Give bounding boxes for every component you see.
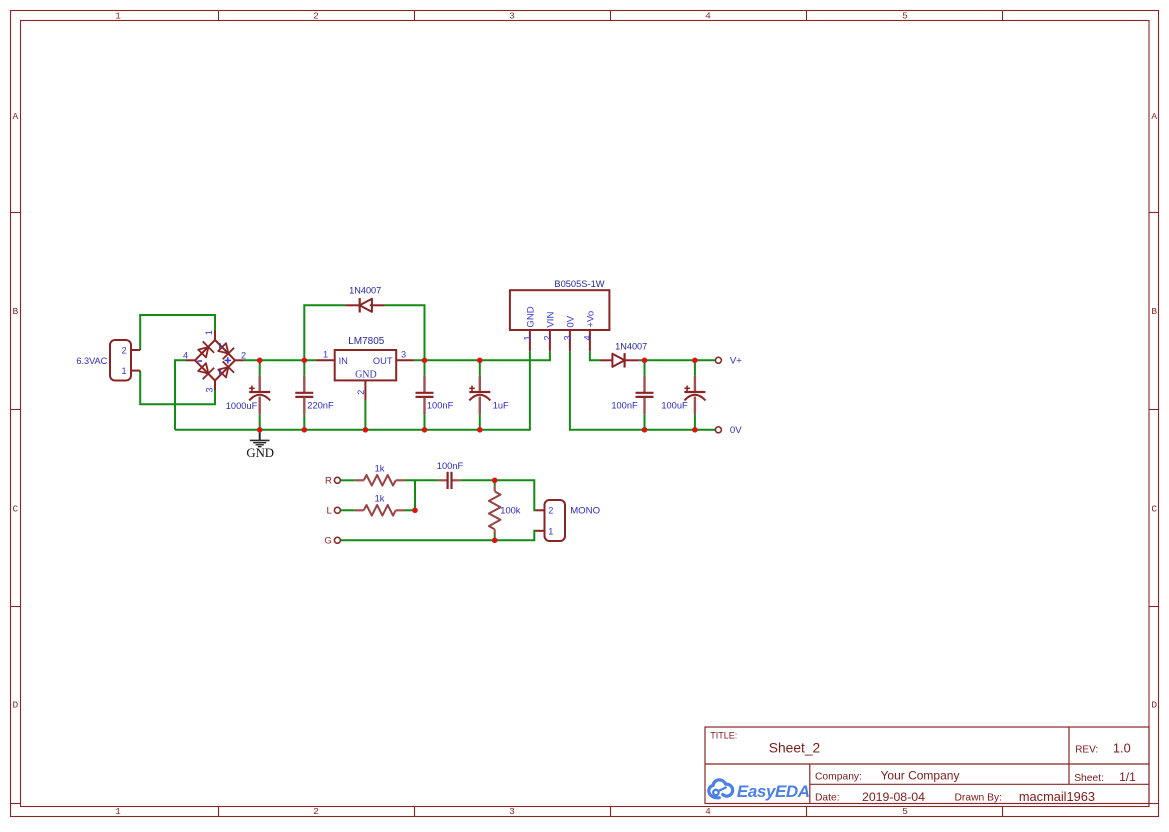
svg-text:~: ~	[215, 342, 227, 349]
junction	[692, 427, 698, 433]
svg-text:Your Company: Your Company	[881, 769, 960, 783]
capacitor C1 1000uF	[249, 360, 270, 430]
svg-text:1/1: 1/1	[1119, 770, 1136, 784]
bridge rectifier D1	[186, 331, 244, 391]
capacitor C4 1uF	[469, 360, 490, 430]
svg-text:Date:: Date:	[815, 793, 840, 804]
junction	[257, 358, 263, 364]
connector P1 6.3VAC	[110, 340, 140, 381]
svg-text:220nF: 220nF	[307, 401, 334, 411]
wire	[590, 351, 600, 360]
svg-text:2: 2	[313, 11, 319, 22]
svg-text:6.3VAC: 6.3VAC	[76, 356, 107, 366]
svg-text:0V: 0V	[730, 425, 742, 436]
capacitor C7 100nF	[438, 472, 460, 489]
svg-text:OUT: OUT	[373, 356, 393, 366]
svg-text:2: 2	[241, 351, 246, 361]
wire	[340, 531, 535, 541]
svg-text:3: 3	[401, 349, 406, 359]
junction	[492, 478, 498, 484]
svg-text:3: 3	[204, 387, 214, 392]
svg-text:+Vo: +Vo	[585, 311, 596, 328]
wire	[384, 305, 424, 360]
title block	[705, 727, 1149, 804]
svg-text:4: 4	[583, 335, 593, 340]
svg-text:Sheet:: Sheet:	[1074, 773, 1104, 784]
svg-text:B: B	[1151, 306, 1157, 317]
svg-text:GND: GND	[355, 370, 377, 381]
connector P2 MONO	[536, 500, 566, 541]
wire	[364, 400, 366, 430]
ground	[250, 431, 270, 447]
svg-text:1: 1	[323, 349, 328, 359]
diode D2 1N4007	[345, 298, 384, 312]
svg-text:4: 4	[705, 11, 711, 22]
module U2 B0505S-1W	[510, 290, 610, 351]
svg-text:1: 1	[204, 330, 214, 335]
wire	[304, 305, 345, 360]
terminal V+	[715, 357, 721, 363]
wire	[175, 351, 530, 430]
capacitor C2 220nF	[295, 360, 313, 430]
junction	[477, 358, 483, 364]
svg-text:2: 2	[313, 806, 319, 817]
svg-text:Sheet_2: Sheet_2	[769, 740, 820, 755]
svg-text:4: 4	[705, 806, 711, 817]
svg-text:D: D	[1151, 700, 1157, 711]
svg-text:5: 5	[902, 806, 908, 817]
svg-text:L: L	[327, 506, 333, 517]
svg-text:C: C	[1151, 504, 1157, 515]
wire	[570, 351, 715, 430]
svg-text:1: 1	[115, 806, 121, 817]
junction	[302, 427, 308, 433]
svg-text:Drawn By:: Drawn By:	[955, 793, 1003, 804]
capacitor C3 100nF	[416, 360, 434, 430]
svg-text:macmail1963: macmail1963	[1019, 789, 1095, 804]
junction	[302, 358, 308, 364]
svg-text:4: 4	[183, 351, 188, 361]
svg-text:B0505S-1W: B0505S-1W	[554, 279, 604, 289]
junction	[412, 508, 418, 514]
svg-text:GND: GND	[246, 446, 274, 460]
svg-text:G: G	[324, 536, 331, 547]
wire	[340, 479, 354, 481]
svg-text:1uF: 1uF	[493, 400, 509, 410]
terminal G	[334, 537, 340, 543]
svg-text:100nF: 100nF	[427, 400, 454, 410]
wire	[414, 480, 416, 510]
svg-text:D: D	[12, 700, 18, 711]
svg-text:V+: V+	[730, 356, 742, 367]
svg-text:1000uF: 1000uF	[226, 401, 258, 411]
svg-text:REV:: REV:	[1075, 745, 1098, 756]
svg-text:3: 3	[509, 806, 515, 817]
svg-text:1: 1	[548, 526, 553, 536]
svg-text:3: 3	[509, 11, 515, 22]
svg-text:3: 3	[563, 335, 573, 340]
junction	[642, 427, 648, 433]
junction	[422, 427, 428, 433]
junction	[477, 427, 483, 433]
svg-text:~: ~	[215, 368, 227, 375]
junction	[492, 538, 498, 544]
svg-text:2: 2	[122, 346, 127, 356]
svg-text:2: 2	[543, 335, 553, 340]
wire	[140, 315, 215, 350]
svg-text:IN: IN	[339, 356, 348, 366]
wire	[405, 509, 416, 511]
svg-text:100k: 100k	[500, 506, 521, 516]
junction	[642, 358, 648, 364]
terminal R	[334, 477, 340, 483]
capacitor C6 100uF	[684, 360, 705, 430]
svg-text:1: 1	[122, 366, 127, 376]
wire	[414, 351, 550, 360]
svg-text:Company:: Company:	[815, 771, 862, 782]
svg-text:1.0: 1.0	[1113, 741, 1131, 756]
wire	[494, 480, 496, 486]
svg-text:100nF: 100nF	[611, 400, 638, 410]
svg-text:LM7805: LM7805	[348, 336, 385, 347]
svg-text:1k: 1k	[375, 494, 385, 504]
svg-text:5: 5	[902, 11, 908, 22]
D1 minus mark	[198, 360, 203, 362]
svg-text:C: C	[12, 504, 18, 515]
resistor R2 1k	[355, 505, 405, 516]
svg-text:1N4007: 1N4007	[615, 342, 647, 352]
svg-text:A: A	[1151, 111, 1157, 122]
wire	[340, 509, 354, 511]
svg-text:1: 1	[523, 335, 533, 340]
junction	[257, 427, 263, 433]
wire	[639, 359, 715, 361]
svg-text:EasyEDA: EasyEDA	[737, 782, 810, 801]
diode D3 1N4007	[600, 353, 639, 367]
junction	[422, 358, 428, 364]
wire	[405, 479, 439, 481]
junction	[692, 358, 698, 364]
wire	[244, 359, 316, 361]
wire	[461, 480, 536, 510]
svg-text:1N4007: 1N4007	[349, 285, 381, 295]
svg-text:VIN: VIN	[545, 312, 556, 328]
svg-text:2019-08-04: 2019-08-04	[862, 790, 925, 804]
svg-text:2: 2	[548, 506, 553, 516]
svg-text:MONO: MONO	[570, 506, 600, 517]
terminal 0V	[715, 427, 721, 433]
capacitor C5 100nF	[636, 360, 654, 430]
svg-text:2: 2	[356, 390, 366, 395]
svg-text:0V: 0V	[565, 315, 576, 327]
D1 plus mark	[225, 357, 231, 363]
svg-text:100uF: 100uF	[661, 400, 688, 410]
svg-text:B: B	[12, 306, 18, 317]
junction	[363, 427, 369, 433]
logo	[709, 780, 733, 798]
resistor R1 1k	[355, 475, 405, 486]
wire	[175, 360, 186, 430]
svg-text:GND: GND	[525, 306, 536, 327]
regulator U1 LM7805	[316, 350, 415, 400]
svg-text:1: 1	[115, 11, 121, 22]
terminal L	[334, 507, 340, 513]
svg-text:A: A	[12, 111, 18, 122]
svg-text:100nF: 100nF	[437, 461, 464, 471]
wire	[494, 535, 496, 541]
svg-text:1k: 1k	[375, 464, 385, 474]
resistor R3 100k	[489, 486, 501, 534]
svg-text:TITLE:: TITLE:	[710, 730, 737, 740]
svg-text:R: R	[325, 476, 332, 487]
wire	[140, 371, 215, 405]
